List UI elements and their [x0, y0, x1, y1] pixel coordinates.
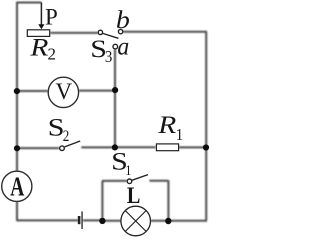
svg-text:a: a — [117, 33, 129, 61]
switch S3 contact a — [113, 44, 118, 49]
battery negative plate (short thick) — [78, 216, 81, 224]
wire left vertical (ammeter to bottom corner) — [16, 201, 18, 220]
wire voltmeter branch left — [17, 90, 48, 92]
svg-text:R: R — [29, 34, 48, 61]
switch S1 pivot — [127, 179, 132, 184]
switch S3 contact b — [118, 29, 122, 33]
wire battery to lamp branch dot — [83, 219, 103, 221]
svg-text:1: 1 — [125, 162, 131, 178]
junction dot left-voltmeter — [14, 88, 20, 94]
wire top-left horizontal P branch — [16, 2, 41, 4]
svg-text:V: V — [55, 79, 72, 104]
wire voltmeter branch right — [79, 90, 113, 92]
wire rheostat to S3 pivot — [50, 32, 98, 34]
wire S1 branch top-left — [102, 180, 127, 182]
wire top right (contact b to right corner) — [123, 31, 207, 33]
rheostat R2 body — [27, 30, 49, 37]
svg-text:R: R — [157, 111, 176, 138]
switch S2 blade — [65, 141, 81, 147]
switch S2 pivot — [60, 146, 65, 151]
junction dot right-R1 — [203, 144, 209, 150]
wire right vertical — [205, 32, 207, 221]
wire left vertical (top section to ammeter) — [16, 2, 18, 172]
junction dot left-S2 — [14, 145, 20, 151]
wire bottom horizontal (left of battery) — [16, 219, 78, 221]
battery positive plate (long thin) — [81, 211, 82, 229]
switch S3 pivot — [98, 30, 102, 34]
wire lamp-left dot to lamp — [102, 220, 121, 222]
wire lamp loop left vertical — [101, 181, 103, 221]
resistor R1 body — [156, 144, 178, 151]
svg-text:3: 3 — [105, 48, 112, 66]
wire middle junction to R1 box — [115, 146, 156, 148]
junction dot lamp-branch right — [165, 218, 171, 224]
svg-text:2: 2 — [63, 128, 70, 145]
wire R1 box to right wire — [179, 146, 206, 148]
switch S3 blade — [103, 34, 118, 39]
svg-text:b: b — [116, 5, 130, 33]
voltmeter V — [48, 77, 78, 107]
svg-text:2: 2 — [48, 45, 57, 64]
svg-text:L: L — [127, 183, 141, 208]
svg-text:A: A — [10, 173, 24, 203]
junction dot lamp-branch left — [99, 218, 105, 224]
wire S1 branch top-right — [149, 180, 168, 182]
ammeter A — [2, 171, 32, 201]
svg-text:P: P — [45, 5, 58, 30]
wire middle vertical (contact a down to R1 line) — [114, 49, 116, 147]
lamp L — [121, 206, 151, 236]
wire lamp right to bottom-right corner — [151, 220, 207, 222]
wire S2 branch left (dot to S2 pivot) — [17, 147, 59, 149]
junction dot middle-R1 line — [112, 144, 118, 150]
arrow P (rheostat slider) — [38, 3, 44, 30]
junction dot middle-voltmeter — [112, 87, 118, 93]
switch S1 blade — [132, 175, 148, 181]
wire S2 to middle junction — [81, 146, 115, 148]
wire lamp loop right vertical — [167, 180, 169, 221]
svg-text:1: 1 — [176, 126, 184, 144]
